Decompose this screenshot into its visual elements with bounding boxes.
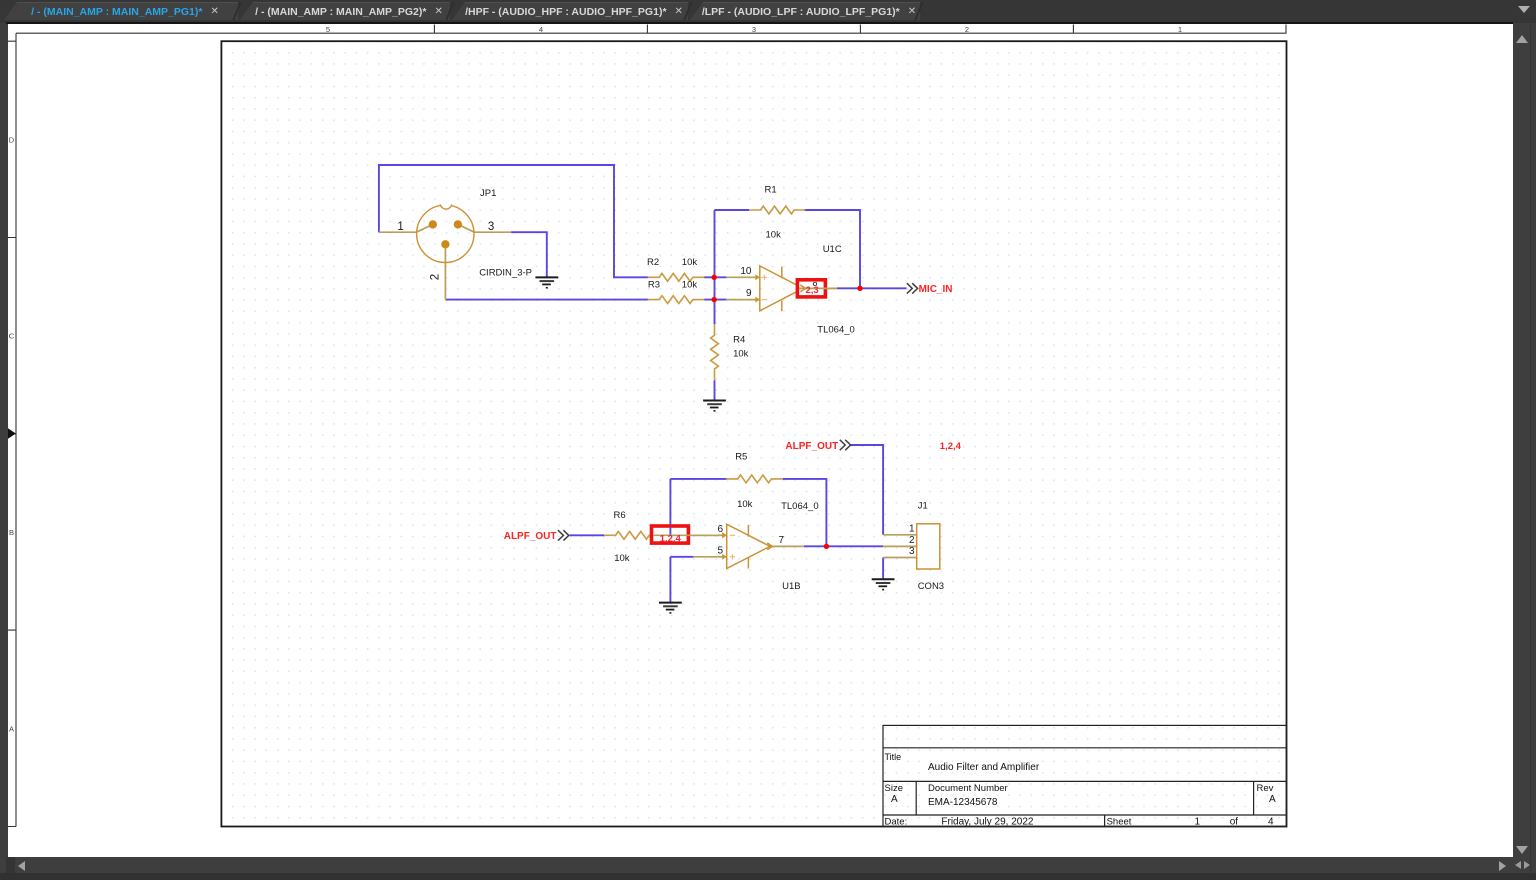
svg-text:JP1: JP1 (480, 188, 496, 199)
svg-text:10k: 10k (614, 553, 630, 564)
svg-text:10k: 10k (682, 279, 698, 290)
svg-text:1: 1 (397, 221, 403, 233)
svg-text:TL064_0: TL064_0 (781, 501, 819, 512)
svg-text:10: 10 (740, 266, 752, 277)
svg-text:C: C (9, 332, 15, 341)
svg-text:5: 5 (717, 545, 723, 556)
svg-text:1,2,4: 1,2,4 (940, 441, 962, 452)
svg-text:D: D (9, 135, 15, 144)
svg-text:EMA-12345678: EMA-12345678 (928, 797, 998, 808)
svg-text:3: 3 (488, 221, 494, 233)
svg-text:10k: 10k (766, 229, 782, 240)
svg-text:2: 2 (430, 274, 442, 280)
svg-text:CON3: CON3 (918, 581, 944, 592)
svg-text:3: 3 (909, 546, 915, 557)
svg-text:1: 1 (909, 523, 915, 534)
svg-text:U1B: U1B (782, 581, 800, 592)
svg-text:TL064_0: TL064_0 (817, 325, 855, 336)
svg-text:MIC_IN: MIC_IN (919, 284, 953, 295)
svg-text:1,2,4: 1,2,4 (660, 533, 682, 544)
svg-text:10k: 10k (682, 257, 698, 268)
svg-text:A: A (9, 724, 14, 733)
svg-text:Rev: Rev (1257, 783, 1274, 794)
svg-text:A: A (891, 794, 898, 805)
svg-text:1: 1 (1178, 25, 1182, 34)
svg-text:R4: R4 (733, 335, 745, 346)
svg-text:R2: R2 (647, 257, 659, 268)
svg-text:R6: R6 (614, 510, 626, 521)
svg-text:5: 5 (326, 25, 330, 34)
svg-text:2: 2 (909, 535, 915, 546)
svg-text:7: 7 (779, 535, 785, 546)
svg-text:2,3: 2,3 (806, 285, 819, 296)
svg-text:R5: R5 (735, 451, 747, 462)
svg-text:Sheet: Sheet (1107, 817, 1132, 828)
svg-text:10k: 10k (733, 349, 749, 360)
svg-text:1: 1 (1195, 817, 1201, 828)
svg-text:4: 4 (539, 25, 543, 34)
svg-text:A: A (1269, 794, 1276, 805)
svg-text:ALPF_OUT: ALPF_OUT (504, 531, 557, 542)
svg-text:6: 6 (717, 524, 723, 535)
svg-text:R3: R3 (648, 279, 660, 290)
svg-text:U1C: U1C (823, 244, 842, 255)
svg-text:10k: 10k (737, 499, 753, 510)
svg-text:J1: J1 (918, 501, 928, 512)
svg-text:3: 3 (752, 25, 756, 34)
svg-text:2: 2 (965, 25, 969, 34)
svg-text:B: B (9, 528, 14, 537)
svg-text:CIRDIN_3-P: CIRDIN_3-P (479, 268, 532, 279)
svg-text:Audio Filter and Amplifier: Audio Filter and Amplifier (928, 762, 1040, 773)
svg-text:ALPF_OUT: ALPF_OUT (785, 441, 838, 452)
svg-text:Title: Title (885, 752, 902, 762)
svg-text:Friday, July 29, 2022: Friday, July 29, 2022 (941, 817, 1034, 828)
svg-text:Document Number: Document Number (928, 783, 1008, 794)
svg-text:Date:: Date: (885, 817, 908, 828)
svg-text:Size: Size (885, 783, 903, 794)
svg-text:9: 9 (746, 288, 752, 299)
svg-text:4: 4 (1268, 817, 1274, 828)
svg-text:of: of (1230, 817, 1239, 828)
svg-text:R1: R1 (765, 185, 777, 196)
